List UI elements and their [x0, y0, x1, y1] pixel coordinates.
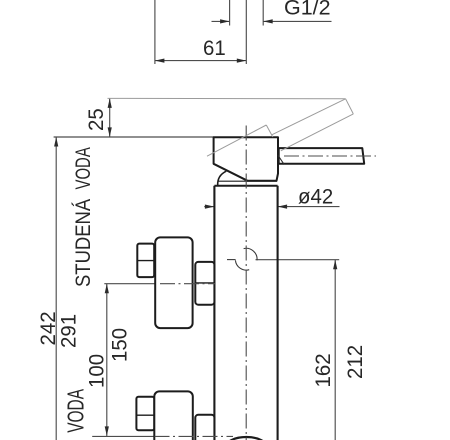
- svg-text:VODA: VODA: [70, 147, 94, 190]
- svg-text:25: 25: [85, 108, 109, 131]
- svg-text:STUDENÁ: STUDENÁ: [71, 198, 96, 287]
- svg-text:162: 162: [312, 353, 336, 387]
- svg-text:150: 150: [108, 328, 132, 362]
- svg-text:212: 212: [344, 345, 368, 379]
- svg-text:ø42: ø42: [298, 185, 333, 209]
- svg-text:VODA: VODA: [64, 388, 90, 433]
- svg-text:100: 100: [85, 354, 109, 388]
- svg-text:291: 291: [57, 314, 81, 348]
- svg-text:61: 61: [203, 37, 226, 61]
- svg-text:G1/2: G1/2: [284, 0, 331, 20]
